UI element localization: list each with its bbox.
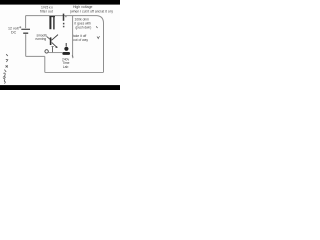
potentiometer P1: base bar	[62, 52, 70, 55]
svg-text:running: running	[36, 37, 47, 41]
svg-text:Lab: Lab	[63, 65, 69, 69]
wire: left rail upper (battery top lead)	[25, 16, 27, 29]
paper background	[0, 0, 120, 90]
margin mark 4	[4, 70, 6, 72]
svg-text:DC: DC	[11, 31, 17, 35]
potentiometer P1: stem	[65, 43, 67, 46]
wire: left rail lower (battery bottom lead down to bottom-left rail)	[25, 34, 27, 56]
transistor Q1: base lead from left	[47, 36, 51, 39]
transistor Q1: emitter stroke with arrow	[52, 43, 57, 48]
junction circle node	[45, 50, 48, 53]
svg-text:(when I cut it off and at it o: (when I cut it off and at it on)	[70, 10, 113, 14]
bottom letterbox bar	[0, 85, 120, 90]
top letterbox bar	[0, 0, 120, 5]
diode D1 body: two vertical strokes below top rail	[49, 16, 51, 29]
margin numeral 2	[3, 73, 6, 77]
margin mark 2	[6, 59, 8, 62]
wire: step-down vertical	[44, 56, 46, 72]
battery plus sign	[19, 26, 21, 28]
stray mark right of note	[96, 26, 97, 28]
potentiometer P1: knob	[64, 47, 68, 51]
svg-text:filter out: filter out	[40, 9, 53, 13]
margin mark 3	[6, 65, 8, 67]
wire: top rail with rounded top-right corner into right rail	[26, 16, 104, 73]
svg-text:out of way: out of way	[73, 38, 88, 42]
svg-text:(push dwn): (push dwn)	[76, 26, 92, 30]
margin numeral 3	[3, 78, 5, 83]
transistor Q1: collector stroke	[52, 35, 58, 41]
svg-text:High voltage: High voltage	[73, 5, 93, 9]
wire: vertical net from top rail down (node A)	[72, 16, 74, 57]
capacitor C1: short bar with dashed lower lead	[63, 14, 65, 21]
stray y-mark	[97, 36, 100, 39]
wire: bottom rail to right side	[45, 72, 104, 74]
margin mark 1	[6, 54, 8, 56]
emitter drop wire to mid rail	[52, 46, 54, 52]
wire: mid horizontal rail	[48, 52, 62, 54]
battery B1 12V: short plate	[23, 32, 28, 34]
wire: bottom-left rail	[26, 55, 45, 57]
transistor Q1: base bar	[50, 37, 52, 45]
battery B1 12V: long plate	[21, 28, 30, 30]
